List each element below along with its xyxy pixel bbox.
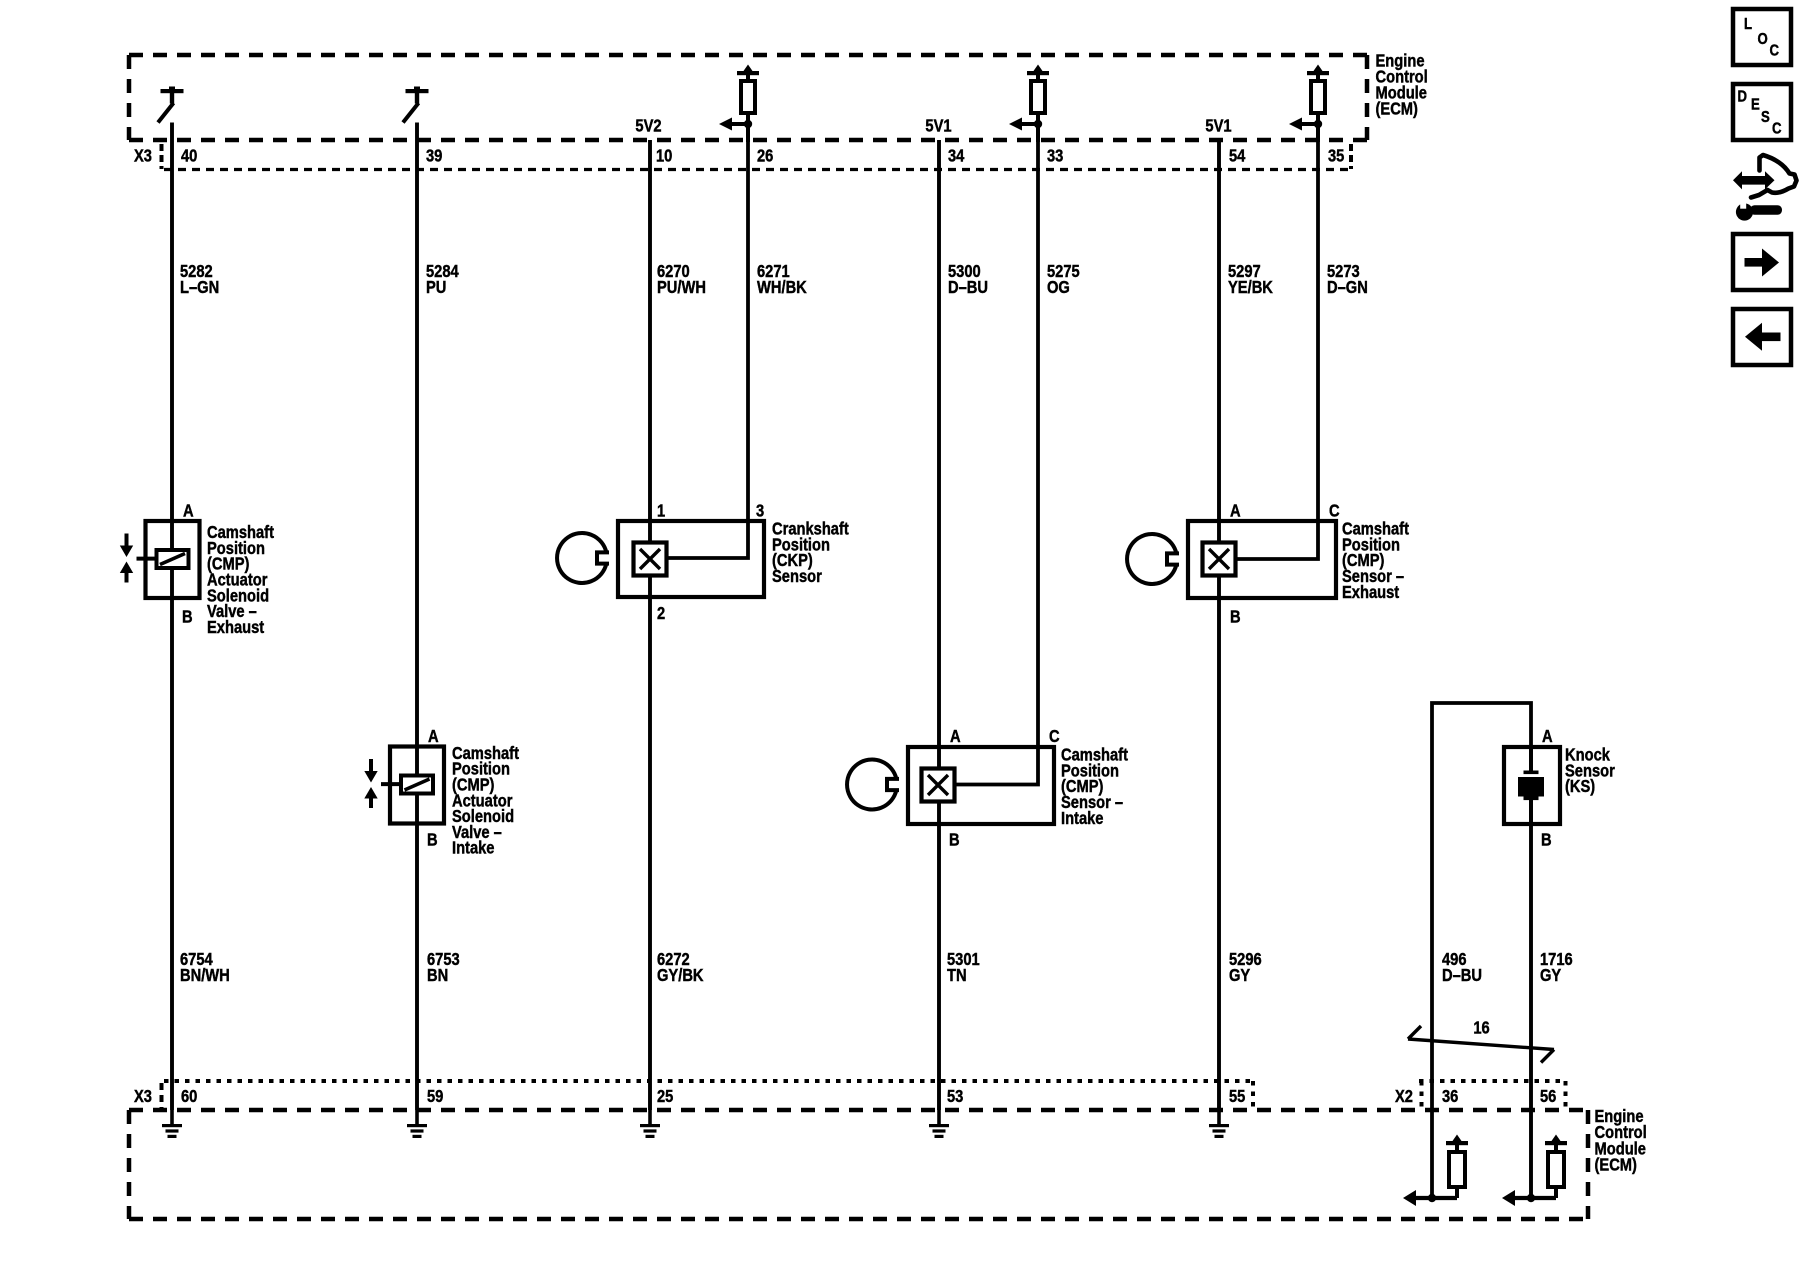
ECM pull-up resistor R1 (pin 26) with junction and 5V2 feed arrow — [719, 65, 759, 143]
label wire 5296 GY — [1229, 950, 1262, 985]
svg-text:34: 34 — [948, 146, 964, 165]
svg-text:53: 53 — [947, 1087, 963, 1106]
wire 5297 YE/BK (pin 54 to CMP exhaust sensor pin A) — [1217, 140, 1221, 543]
icon forward arrow box — [1733, 234, 1791, 290]
label wire 5275 OG — [1047, 262, 1080, 297]
svg-text:BN/WH: BN/WH — [180, 966, 230, 985]
KS (knock sensor) box — [1504, 747, 1560, 824]
label CMP actuator solenoid valve exhaust — [207, 523, 275, 637]
svg-text:A: A — [428, 727, 439, 746]
CMP intake reluctor ring — [847, 760, 899, 810]
svg-text:A: A — [183, 501, 194, 520]
svg-text:25: 25 — [657, 1087, 673, 1106]
svg-text:O: O — [1758, 31, 1768, 48]
label wire 5282 L-GN — [180, 262, 219, 297]
ECM bottom label — [1595, 1107, 1647, 1175]
label wire 6272 GY/BK — [657, 950, 704, 985]
ECM pull-up resistor R2 (pin 33) with junction and 5V1 feed arrow — [1009, 65, 1049, 143]
label wire 6271 WH/BK — [757, 262, 807, 297]
ECM top label — [1376, 51, 1428, 119]
label knock sensor (KS) — [1565, 746, 1615, 797]
wire 6753 BN (CMP actuator intake pin B to pin 59) — [415, 794, 419, 1111]
svg-text:PU/WH: PU/WH — [657, 278, 706, 297]
svg-text:60: 60 — [181, 1087, 197, 1106]
label wire 6270 PU/WH — [657, 262, 706, 297]
ECM (Engine Control Module) bottom dashed box — [129, 1110, 1588, 1219]
svg-text:5V2: 5V2 — [635, 116, 661, 135]
svg-text:B: B — [427, 830, 438, 849]
svg-text:56: 56 — [1540, 1087, 1556, 1106]
CMP exhaust sensor element — [1203, 543, 1236, 576]
connector X3 (bottom) dotted/dashed row — [162, 1081, 1254, 1110]
svg-text:(ECM): (ECM) — [1376, 100, 1418, 119]
svg-text:1: 1 — [657, 501, 665, 520]
wire 5300 D-BU (pin 34 to CMP intake sensor pin A) — [937, 140, 941, 769]
svg-text:16: 16 — [1473, 1018, 1489, 1037]
wire 6270 PU/WH (pin 10 to CKP sensor pin 1) — [648, 140, 652, 543]
ground (pin 60) — [162, 1110, 182, 1138]
svg-text:C: C — [1772, 121, 1782, 138]
svg-text:L: L — [1744, 16, 1752, 33]
wire 5273 D-GN (pin 35 to CMP exhaust sensor pin C) — [1235, 113, 1318, 559]
connector X3 (top) dashed row — [129, 140, 1367, 170]
svg-text:3: 3 — [756, 501, 764, 520]
svg-text:(ECM): (ECM) — [1595, 1155, 1637, 1174]
svg-text:A: A — [950, 727, 961, 746]
svg-text:PU: PU — [426, 278, 446, 297]
label wire 6754 BN/WH — [180, 950, 230, 985]
svg-text:D–BU: D–BU — [948, 278, 988, 297]
svg-text:Intake: Intake — [1061, 809, 1104, 828]
svg-text:OG: OG — [1047, 278, 1070, 297]
svg-text:GY: GY — [1540, 966, 1562, 985]
wire 1716 GY (knock sensor pin B to ECM X2 pin 56) — [1529, 800, 1533, 1198]
svg-text:(KS): (KS) — [1565, 777, 1595, 796]
CMP intake sensor element — [922, 769, 955, 802]
CKP reluctor ring — [557, 533, 609, 583]
icon DESC box — [1733, 84, 1791, 140]
svg-text:10: 10 — [656, 146, 672, 165]
svg-text:X3: X3 — [134, 146, 152, 165]
svg-text:D: D — [1738, 89, 1748, 106]
wire 5296 GY (CMP exhaust sensor pin B to pin 55) — [1217, 575, 1221, 1110]
svg-text:L–GN: L–GN — [180, 278, 219, 297]
svg-text:B: B — [1541, 830, 1552, 849]
ground (pin 25) — [640, 1110, 660, 1138]
svg-text:39: 39 — [426, 146, 442, 165]
label wire 6753 BN — [427, 950, 460, 985]
label wire 5301 TN — [947, 950, 980, 985]
label CMP sensor exhaust — [1342, 520, 1410, 603]
svg-text:WH/BK: WH/BK — [757, 278, 807, 297]
ECM pull-up resistor R3 (pin 35) with junction and 5V1 feed arrow — [1289, 65, 1329, 143]
svg-text:A: A — [1542, 727, 1553, 746]
wire 496 D-BU loop (knock sensor pin A to ECM X2 pin 36) — [1432, 703, 1531, 1198]
svg-text:E: E — [1751, 97, 1760, 114]
label wire 5273 D-GN — [1327, 262, 1368, 297]
svg-text:36: 36 — [1442, 1087, 1458, 1106]
svg-text:BN: BN — [427, 966, 448, 985]
wire 5301 TN (CMP intake sensor pin B to pin 53) — [937, 801, 941, 1110]
svg-text:59: 59 — [427, 1087, 443, 1106]
svg-text:33: 33 — [1047, 146, 1063, 165]
ECM internal resistor R5 (pin 56) — [1545, 1135, 1567, 1199]
svg-text:GY: GY — [1229, 966, 1251, 985]
ECM driver switch Q2 (pin 39, intake solenoid control) — [403, 87, 429, 123]
svg-text:Sensor: Sensor — [772, 567, 822, 586]
svg-text:Exhaust: Exhaust — [1342, 583, 1400, 602]
ECM internal bus with arrow (pin 36) — [1403, 1190, 1457, 1206]
icon back arrow box — [1733, 309, 1791, 365]
svg-text:B: B — [949, 830, 960, 849]
svg-text:A: A — [1230, 501, 1241, 520]
svg-text:GY/BK: GY/BK — [657, 966, 704, 985]
svg-text:D–BU: D–BU — [1442, 966, 1482, 985]
svg-text:2: 2 — [657, 604, 665, 623]
svg-text:55: 55 — [1229, 1087, 1245, 1106]
label wire 5297 YE/BK — [1228, 262, 1273, 297]
label wire 5300 D-BU — [948, 262, 988, 297]
wire 5275 OG (pin 33 to CMP intake sensor pin C) — [954, 113, 1038, 785]
svg-text:D–GN: D–GN — [1327, 278, 1368, 297]
label wire 5284 PU — [426, 262, 459, 297]
svg-text:Exhaust: Exhaust — [207, 618, 265, 637]
CMP sensor - exhaust box — [1188, 521, 1336, 598]
svg-text:S: S — [1761, 109, 1770, 126]
label wire 496 D-BU — [1442, 950, 1482, 985]
svg-text:54: 54 — [1229, 146, 1245, 165]
label wire 1716 GY — [1540, 950, 1573, 985]
CMP sensor - intake box — [908, 747, 1054, 824]
icon LOC box — [1733, 9, 1791, 65]
svg-text:C: C — [1049, 727, 1060, 746]
svg-text:X2: X2 — [1395, 1087, 1413, 1106]
ECM internal bus with arrow (pin 56) — [1502, 1190, 1556, 1206]
svg-text:5V1: 5V1 — [925, 116, 951, 135]
ground (pin 53) — [929, 1110, 949, 1138]
wire 5282 L-GN (pin 40 to CMP actuator exhaust pin A) — [170, 123, 174, 551]
KS piezo element — [1518, 747, 1544, 824]
wire 6271 WH/BK (pin 26 to CKP sensor pin 3) — [666, 113, 748, 558]
CMP actuator solenoid valve - exhaust — [120, 521, 200, 598]
ECM internal resistor R4 (pin 36) — [1446, 1135, 1468, 1199]
svg-text:Intake: Intake — [452, 839, 495, 858]
svg-text:40: 40 — [181, 146, 197, 165]
ground (pin 59) — [407, 1110, 427, 1138]
svg-text:26: 26 — [757, 146, 773, 165]
svg-text:C: C — [1770, 43, 1780, 60]
svg-text:TN: TN — [947, 966, 967, 985]
connector X2 dotted row — [1419, 1081, 1566, 1110]
CMP exhaust reluctor ring — [1127, 534, 1179, 584]
wire 5284 PU (pin 39 to CMP actuator intake pin A) — [415, 123, 419, 776]
harness note 16 (crossing slash with half arrows) — [1408, 1018, 1554, 1062]
CKP (crankshaft position) sensor box — [618, 521, 764, 597]
svg-text:B: B — [1230, 607, 1241, 626]
svg-text:5V1: 5V1 — [1205, 116, 1231, 135]
wire 6754 BN/WH (CMP actuator exhaust pin B to pin 60) — [170, 568, 174, 1110]
wire 6272 GY/BK (CKP sensor pin 2 to pin 25) — [648, 575, 652, 1110]
ECM (Engine Control Module) top dashed box — [129, 55, 1367, 140]
svg-text:B: B — [182, 607, 193, 626]
svg-text:YE/BK: YE/BK — [1228, 278, 1273, 297]
svg-text:X3: X3 — [134, 1087, 152, 1106]
CKP sensor element — [634, 543, 667, 576]
svg-text:C: C — [1329, 501, 1340, 520]
svg-text:35: 35 — [1328, 146, 1344, 165]
label CKP sensor — [772, 520, 849, 587]
label CMP sensor intake — [1061, 746, 1129, 829]
CMP actuator solenoid valve - intake — [364, 747, 444, 824]
ECM driver switch Q1 (pin 40, exhaust solenoid control) — [158, 87, 184, 123]
ground (pin 55) — [1209, 1110, 1229, 1138]
label CMP actuator solenoid valve intake — [452, 744, 520, 858]
icon vehicle with double arrow and wrench — [1733, 155, 1797, 221]
